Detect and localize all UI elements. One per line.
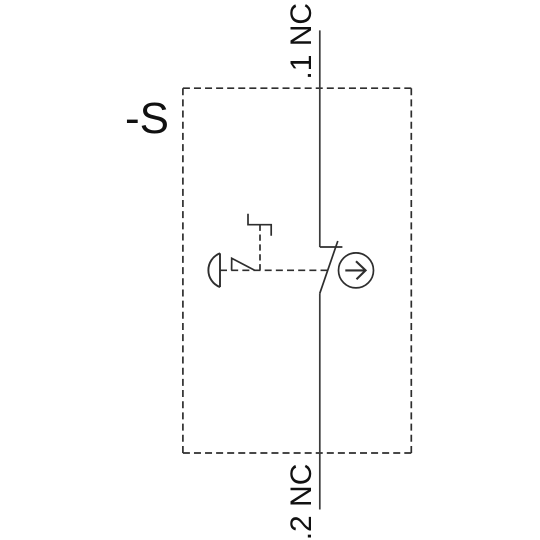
- mushroom-head actuator (flat side): [219, 253, 221, 287]
- enclosure dashed border: left edge: [182, 88, 184, 453]
- enclosure dashed border: bottom edge: [183, 452, 411, 454]
- NC contact fixed-terminal tick: [320, 246, 343, 248]
- svg-text:.2 NC: .2 NC: [285, 464, 318, 540]
- wire: bottom terminal .2: [319, 293, 321, 509]
- enclosure dashed border: right edge: [410, 88, 412, 453]
- enclosure dashed border: top edge: [183, 87, 411, 89]
- svg-text:-S: -S: [125, 94, 169, 143]
- NC contact moving blade: [320, 241, 338, 293]
- ramp (rotate-to-reset) triangle: [232, 258, 255, 270]
- wire: top terminal .1: [319, 30, 321, 247]
- reset arrow (turn-to-release): [345, 261, 365, 279]
- mechanical link (dashed, latch to link line): [259, 225, 261, 271]
- mechanical link (dashed, actuator to blade): [220, 269, 328, 271]
- mushroom-head actuator (dome arc): [208, 253, 220, 287]
- reset symbol circle: [339, 253, 374, 288]
- svg-text:.1 NC: .1 NC: [285, 3, 318, 80]
- latch / trip detent symbol: [248, 214, 271, 236]
